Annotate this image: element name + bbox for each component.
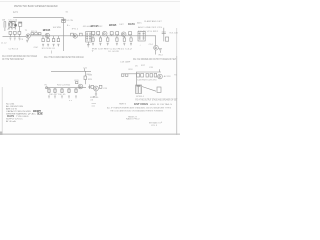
svg-text:OSC: OSC <box>34 47 39 49</box>
svg-text:ALL IF TRANSFORMERS ARE STANDA: ALL IF TRANSFORMERS ARE STANDARD 455 kHz… <box>107 106 171 109</box>
svg-text:VOL 3: VOL 3 <box>151 125 158 127</box>
svg-text:10K 4K7 100 .05: 10K 4K7 100 .05 <box>49 94 66 96</box>
svg-text:C18 10MF: C18 10MF <box>120 62 131 64</box>
svg-text:AGC: AGC <box>137 22 142 25</box>
svg-text:RADIO PROJ: RADIO PROJ <box>126 118 139 121</box>
svg-text:THE COILS ARE WOUND ON STANDAR: THE COILS ARE WOUND ON STANDARD FERRITE … <box>110 109 163 112</box>
svg-text:1K .04 470: 1K .04 470 <box>108 51 119 53</box>
svg-text:C28 R29 C29 470: C28 R29 C29 470 <box>137 79 157 81</box>
svg-text:L1 L2: L1 L2 <box>1 43 7 45</box>
svg-text:DIODE: DIODE <box>37 112 43 116</box>
svg-text:AT 40 mA: AT 40 mA <box>6 120 16 123</box>
svg-text:OA79: OA79 <box>128 22 135 26</box>
svg-text:BF195: BF195 <box>43 28 51 32</box>
svg-text:VOL 10K: VOL 10K <box>169 33 178 35</box>
svg-text:OF THE TWO BAND SET: OF THE TWO BAND SET <box>2 58 24 61</box>
svg-text:AND IF DETAILS: AND IF DETAILS <box>150 103 173 106</box>
svg-text:FIG 2 THE IF AMPLIFIER DETECT: FIG 2 THE IF AMPLIFIER DETECTOR AND AGC <box>44 56 84 59</box>
svg-text:TO AF VOL R12: TO AF VOL R12 <box>138 30 159 33</box>
svg-text:AC128: AC128 <box>164 75 171 78</box>
svg-text:C2 R1 C3: C2 R1 C3 <box>9 48 19 50</box>
svg-text:R2 C4: R2 C4 <box>31 31 38 33</box>
svg-text:SW MW: SW MW <box>53 27 62 29</box>
svg-text:12 V: 12 V <box>13 11 18 14</box>
svg-text:PARTS: PARTS <box>119 103 127 106</box>
svg-text:R3 C5 R4 C6: R3 C5 R4 C6 <box>42 48 56 50</box>
svg-text:IFT1 2: IFT1 2 <box>72 28 79 30</box>
svg-text:LIST COILS: LIST COILS <box>134 102 148 106</box>
svg-text:BF195: BF195 <box>109 23 117 27</box>
svg-text:DET: DET <box>119 24 124 26</box>
svg-text:AGC LINE 2K2 C15: AGC LINE 2K2 C15 <box>138 26 163 29</box>
svg-text:MW/SW TWO BAND SUPERHET RECEIV: MW/SW TWO BAND SUPERHET RECEIVER <box>14 4 58 8</box>
svg-text:FIG 4 THE OUTPUT STAGE AND SP: FIG 4 THE OUTPUT STAGE AND SPEAKER OF SE… <box>135 98 177 101</box>
svg-text:S1 ON: S1 ON <box>66 20 73 22</box>
svg-text:OA79: OA79 <box>7 114 15 118</box>
svg-text:BF195: BF195 <box>91 24 100 28</box>
svg-text:FIG 3 AF DRIVER AND OUTPUT ST: FIG 3 AF DRIVER AND OUTPUT STAGES OF SET <box>133 58 176 61</box>
svg-text:IF AMP AND DET: IF AMP AND DET <box>144 20 162 23</box>
svg-text:R21 C23 R22: R21 C23 R22 <box>57 84 71 86</box>
